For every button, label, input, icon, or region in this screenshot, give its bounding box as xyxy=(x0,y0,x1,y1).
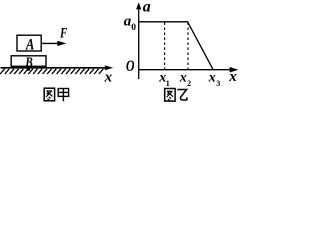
svg-text:x: x xyxy=(208,71,216,86)
svg-text:O: O xyxy=(126,57,135,75)
svg-text:x: x xyxy=(179,71,187,86)
svg-text:0: 0 xyxy=(131,23,136,33)
svg-text:F: F xyxy=(59,25,67,41)
svg-text:3: 3 xyxy=(216,79,220,88)
svg-text:x: x xyxy=(228,69,237,85)
svg-text:2: 2 xyxy=(187,79,191,88)
svg-text:x: x xyxy=(104,70,113,86)
svg-text:1: 1 xyxy=(166,79,170,88)
svg-text:a: a xyxy=(143,0,151,16)
svg-text:A: A xyxy=(25,36,35,54)
